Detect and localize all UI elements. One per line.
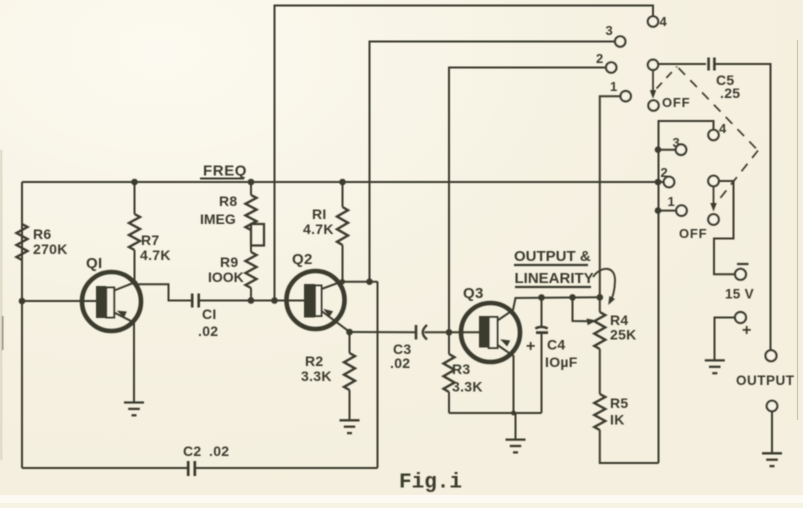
svg-text:IOOK: IOOK xyxy=(208,269,244,285)
svg-text:2: 2 xyxy=(596,51,604,66)
svg-text:RI: RI xyxy=(312,206,327,222)
svg-text:OUTPUT: OUTPUT xyxy=(736,373,795,388)
svg-text:QI: QI xyxy=(86,255,102,272)
svg-text:C2: C2 xyxy=(183,443,202,459)
svg-text:3.3K: 3.3K xyxy=(301,368,332,384)
svg-text:.02: .02 xyxy=(390,355,410,371)
svg-text:R8: R8 xyxy=(219,193,238,209)
svg-text:.25: .25 xyxy=(720,85,740,101)
svg-text:15 V: 15 V xyxy=(725,287,754,302)
svg-text:LINEARITY: LINEARITY xyxy=(515,270,594,287)
svg-text:OFF: OFF xyxy=(679,226,707,241)
svg-text:OFF: OFF xyxy=(662,95,690,110)
svg-text:Q3: Q3 xyxy=(463,285,484,302)
svg-text:4: 4 xyxy=(660,14,668,29)
svg-text:IK: IK xyxy=(610,412,625,428)
svg-text:.02: .02 xyxy=(198,323,218,339)
svg-text:IOµF: IOµF xyxy=(545,354,578,370)
svg-text:IMEG: IMEG xyxy=(200,211,236,227)
svg-text:1: 1 xyxy=(610,79,618,94)
svg-text:+: + xyxy=(742,322,752,339)
svg-text:.02: .02 xyxy=(209,443,229,459)
svg-text:4: 4 xyxy=(719,121,727,136)
svg-text:3: 3 xyxy=(606,23,614,38)
svg-text:R3: R3 xyxy=(452,361,471,377)
svg-text:R6: R6 xyxy=(33,226,52,242)
svg-text:4.7K: 4.7K xyxy=(303,221,334,237)
svg-text:R2: R2 xyxy=(305,353,324,369)
svg-text:4.7K: 4.7K xyxy=(140,247,171,263)
svg-text:3.3K: 3.3K xyxy=(452,379,483,395)
svg-text:OUTPUT &: OUTPUT & xyxy=(514,248,591,265)
svg-text:2: 2 xyxy=(661,165,669,180)
svg-text:R7: R7 xyxy=(141,232,160,248)
svg-text:25K: 25K xyxy=(610,327,637,343)
svg-text:+: + xyxy=(526,338,536,355)
svg-text:CI: CI xyxy=(202,306,217,322)
svg-text:FREQ: FREQ xyxy=(203,163,247,180)
svg-text:3: 3 xyxy=(673,135,681,150)
svg-text:270K: 270K xyxy=(33,241,68,257)
svg-text:R5: R5 xyxy=(610,395,629,411)
svg-text:Q2: Q2 xyxy=(292,251,313,268)
svg-text:R9: R9 xyxy=(220,254,239,270)
svg-text:1: 1 xyxy=(668,194,676,209)
svg-text:C4: C4 xyxy=(547,337,566,353)
svg-text:Fig.i: Fig.i xyxy=(399,472,462,495)
